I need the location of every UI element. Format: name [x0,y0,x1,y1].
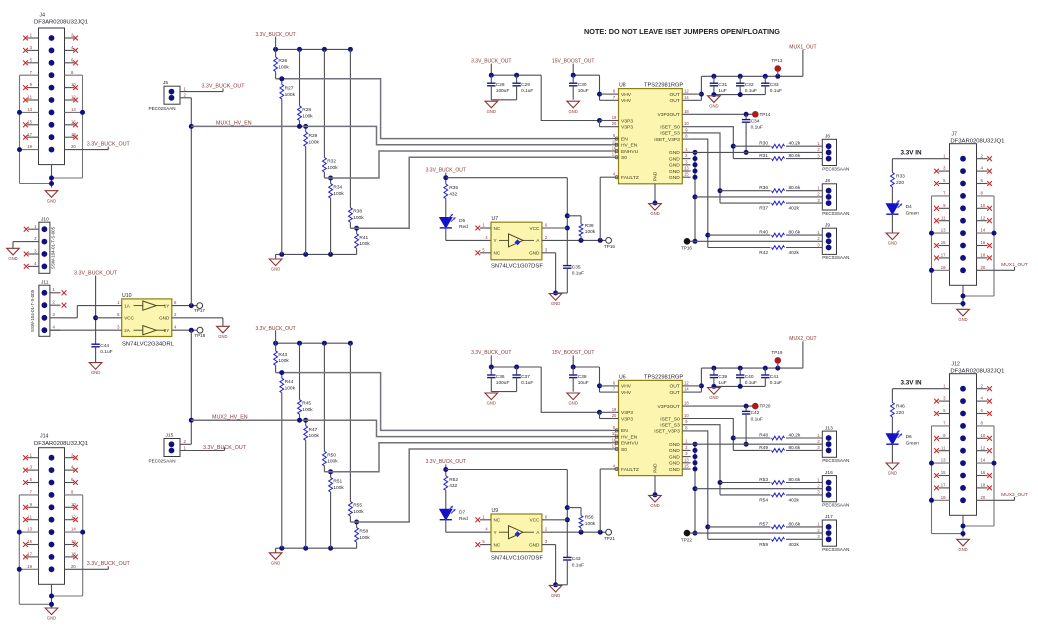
svg-text:SN74LVC2G34DRL: SN74LVC2G34DRL [122,342,175,348]
svg-text:ISET_S3: ISET_S3 [660,131,680,137]
svg-text:MUX1_OUT: MUX1_OUT [1001,262,1028,268]
svg-text:ENHVU: ENHVU [621,441,639,447]
svg-text:1uF: 1uF [718,88,726,94]
svg-text:GND: GND [569,401,578,406]
svg-text:J6: J6 [825,134,830,140]
svg-text:MUX2_HV_EN: MUX2_HV_EN [212,414,248,420]
svg-text:MUX1_OUT: MUX1_OUT [789,44,816,50]
svg-text:GND: GND [551,301,560,306]
svg-text:3.3V_BUCK_OUT: 3.3V_BUCK_OUT [426,459,466,465]
svg-text:V3P3OUT: V3P3OUT [658,112,680,118]
svg-text:Green: Green [906,440,920,446]
svg-text:J15: J15 [166,432,174,438]
svg-text:100k: 100k [359,535,370,541]
svg-text:12: 12 [981,445,986,450]
svg-text:12: 12 [684,380,689,385]
svg-text:11: 11 [28,514,33,519]
svg-text:R29: R29 [309,133,318,139]
svg-text:R35: R35 [449,185,458,191]
svg-text:VCC: VCC [529,226,540,231]
svg-text:16: 16 [981,470,986,475]
svg-text:GND: GND [669,156,680,162]
svg-text:13: 13 [684,457,689,462]
svg-text:3.3V_BUCK_OUT: 3.3V_BUCK_OUT [471,350,511,356]
svg-text:GND: GND [669,467,680,473]
svg-text:15: 15 [941,470,946,475]
svg-text:R44: R44 [285,379,294,385]
svg-text:SN74LVC1G07DSF: SN74LVC1G07DSF [491,555,543,561]
svg-text:J10: J10 [41,217,49,223]
svg-text:R54: R54 [759,498,768,504]
svg-text:GND: GND [159,316,170,321]
svg-text:402k: 402k [789,206,800,212]
svg-text:17: 17 [941,483,946,488]
svg-text:100uF: 100uF [496,380,510,386]
svg-text:Red: Red [459,516,468,522]
svg-text:402k: 402k [789,250,800,256]
svg-text:V3P3OUT: V3P3OUT [658,404,680,410]
svg-text:HV_EN: HV_EN [621,143,638,149]
svg-text:J5: J5 [163,80,168,86]
svg-text:14: 14 [71,107,76,112]
svg-text:80.6k: 80.6k [789,185,801,191]
svg-text:10uF: 10uF [578,380,589,386]
svg-text:VHV: VHV [621,390,632,396]
svg-text:100k: 100k [333,485,344,491]
svg-text:0.1uF: 0.1uF [770,88,782,94]
svg-text:100k: 100k [327,165,338,171]
svg-text:PEC03SAAN: PEC03SAAN [822,255,849,260]
svg-text:3.3V_BUCK_OUT: 3.3V_BUCK_OUT [426,167,466,173]
svg-text:GND: GND [958,547,967,552]
svg-text:40.2k: 40.2k [789,141,801,147]
svg-text:GND: GND [529,251,540,256]
svg-text:GND: GND [669,150,680,156]
svg-text:19: 19 [941,495,946,500]
svg-text:220: 220 [896,180,904,186]
svg-text:GND: GND [487,401,496,406]
svg-text:100k: 100k [353,509,364,515]
svg-text:TPS22981RGP: TPS22981RGP [644,374,683,380]
svg-text:J11: J11 [41,280,49,286]
svg-text:C39: C39 [718,374,727,380]
svg-text:18: 18 [981,483,986,488]
svg-text:R36: R36 [759,185,768,191]
svg-text:40.2k: 40.2k [789,432,801,438]
svg-text:20: 20 [71,144,76,149]
svg-text:J14: J14 [40,434,48,440]
svg-text:R51: R51 [333,478,342,484]
svg-text:10: 10 [684,413,689,418]
svg-text:PEC02SAAN: PEC02SAAN [149,106,176,111]
svg-text:14: 14 [981,458,986,463]
svg-text:15: 15 [27,539,32,544]
svg-text:D5: D5 [459,218,465,224]
svg-text:100k: 100k [309,139,320,145]
svg-text:18: 18 [684,109,689,114]
svg-text:R27: R27 [285,85,294,91]
svg-text:PEC03SAAN: PEC03SAAN [822,458,849,463]
svg-text:U10: U10 [122,293,132,299]
svg-text:R38: R38 [353,209,362,215]
svg-text:R43: R43 [278,352,287,358]
svg-text:12: 12 [684,89,689,94]
svg-text:OUT: OUT [669,384,679,390]
svg-text:3.3V IN: 3.3V IN [901,150,922,157]
svg-text:MUX1_HV_EN: MUX1_HV_EN [216,121,252,127]
svg-text:15V_BOOST_OUT: 15V_BOOST_OUT [552,58,595,64]
svg-text:GND: GND [709,103,718,108]
svg-text:80.6k: 80.6k [789,521,801,527]
svg-text:J16: J16 [825,470,833,476]
svg-text:C43: C43 [572,556,581,562]
svg-text:16: 16 [981,240,986,245]
svg-text:12: 12 [981,215,986,220]
svg-text:R26: R26 [278,58,287,64]
svg-text:C42: C42 [751,410,760,416]
svg-text:V3P3: V3P3 [621,416,633,422]
svg-text:R59: R59 [759,542,768,548]
svg-text:100k: 100k [302,407,313,413]
svg-text:OUT: OUT [669,390,679,396]
svg-text:PEC03SAAN: PEC03SAAN [822,547,849,552]
svg-text:R46: R46 [896,403,905,409]
svg-text:0.1uF: 0.1uF [745,88,757,94]
svg-text:R50: R50 [327,452,336,458]
svg-text:GND: GND [888,241,897,246]
svg-text:15: 15 [684,464,689,469]
svg-text:3.3V_BUCK_OUT: 3.3V_BUCK_OUT [203,445,247,451]
svg-text:U6: U6 [619,374,626,380]
svg-text:R40: R40 [759,230,768,236]
svg-text:13: 13 [27,107,32,112]
svg-text:GND: GND [529,542,540,547]
svg-text:ISET_V3P3: ISET_V3P3 [654,137,680,143]
svg-text:V3P3: V3P3 [621,118,633,124]
svg-text:GND: GND [8,256,17,261]
svg-text:C38: C38 [578,374,587,380]
svg-text:TP14: TP14 [760,112,771,117]
svg-text:R57: R57 [759,521,768,527]
svg-text:TP17: TP17 [194,308,205,313]
svg-text:S0: S0 [621,447,627,453]
svg-text:V3P3: V3P3 [621,410,633,416]
svg-text:EN: EN [621,428,628,434]
svg-text:R47: R47 [309,427,318,433]
svg-text:80.6k: 80.6k [789,445,801,451]
svg-text:TP16: TP16 [681,246,692,251]
svg-text:0.1uF: 0.1uF [572,271,584,277]
svg-text:TP19: TP19 [771,350,782,355]
svg-text:20: 20 [71,564,76,569]
svg-text:14: 14 [684,387,689,392]
svg-text:ISET_S0: ISET_S0 [660,125,680,131]
svg-text:100k: 100k [585,229,596,235]
svg-text:R56: R56 [585,515,594,521]
svg-text:100k: 100k [327,459,338,465]
svg-text:0.1uF: 0.1uF [572,562,584,568]
svg-text:3.3V_BUCK_OUT: 3.3V_BUCK_OUT [471,58,511,64]
svg-text:DF3AR0208U32JQ1: DF3AR0208U32JQ1 [34,441,88,447]
svg-text:C44: C44 [100,343,109,349]
svg-text:U7: U7 [492,216,499,222]
svg-text:0.1uF: 0.1uF [521,380,533,386]
svg-text:R37: R37 [759,206,768,212]
svg-text:11: 11 [941,215,946,220]
svg-text:ENHVU: ENHVU [621,149,639,155]
svg-text:C28: C28 [496,82,505,88]
svg-text:R34: R34 [333,185,342,191]
svg-text:D6: D6 [906,434,912,440]
svg-text:0.1uF: 0.1uF [521,88,533,94]
svg-text:OUT: OUT [669,92,679,98]
svg-text:80.6k: 80.6k [789,153,801,159]
svg-text:1uF: 1uF [718,380,726,386]
svg-text:Green: Green [906,210,920,216]
svg-text:19: 19 [612,407,617,412]
svg-text:11: 11 [941,445,946,450]
svg-text:14: 14 [71,527,76,532]
svg-text:C29: C29 [521,82,530,88]
svg-text:J7: J7 [952,132,958,138]
svg-text:GND: GND [958,317,967,322]
svg-text:C31: C31 [718,82,727,88]
svg-text:GND: GND [669,175,680,181]
svg-text:10: 10 [981,203,986,208]
svg-text:GND: GND [569,109,578,114]
svg-text:SSW-104-01-T-S-005: SSW-104-01-T-S-005 [51,226,56,269]
svg-text:20: 20 [612,413,617,418]
svg-text:20: 20 [612,121,617,126]
svg-text:TP22: TP22 [681,537,692,542]
svg-text:3.3V IN: 3.3V IN [901,380,922,387]
svg-text:13: 13 [684,166,689,171]
svg-text:GND: GND [551,593,560,598]
svg-text:R33: R33 [896,173,905,179]
svg-text:ISET_V3P3: ISET_V3P3 [654,429,680,435]
svg-text:2A: 2A [124,328,131,333]
svg-text:3.3V_BUCK_OUT: 3.3V_BUCK_OUT [74,270,118,276]
svg-text:19: 19 [27,144,32,149]
svg-text:100k: 100k [285,386,296,392]
svg-text:100k: 100k [333,191,344,197]
svg-text:U8: U8 [619,83,626,89]
svg-text:0.1uF: 0.1uF [751,416,763,422]
svg-text:TPS22981RGP: TPS22981RGP [644,83,683,89]
svg-text:DF3AR0208U32JQ1: DF3AR0208U32JQ1 [950,139,1004,145]
svg-text:R39: R39 [585,223,594,229]
svg-text:GND: GND [47,616,56,621]
svg-text:GND: GND [669,454,680,460]
svg-text:11: 11 [28,95,33,100]
svg-text:TP15: TP15 [604,244,615,249]
svg-text:SN74LVC1G07DSF: SN74LVC1G07DSF [491,264,543,270]
svg-text:0.1uF: 0.1uF [751,125,763,131]
svg-text:DF3AR0208U32JQ1: DF3AR0208U32JQ1 [34,20,88,26]
svg-text:10uF: 10uF [578,88,589,94]
svg-text:GND: GND [650,503,659,508]
svg-text:GND: GND [218,334,227,339]
svg-text:GND: GND [669,442,680,448]
svg-text:TP13: TP13 [771,58,782,63]
svg-text:D7: D7 [459,510,465,516]
svg-text:17: 17 [27,552,32,557]
svg-text:10: 10 [981,433,986,438]
svg-text:PEC03SAAN: PEC03SAAN [822,211,849,216]
svg-text:J8: J8 [825,178,830,184]
svg-text:NC: NC [494,518,501,523]
svg-text:220: 220 [896,410,904,416]
svg-text:20: 20 [981,265,986,270]
svg-text:R55: R55 [353,503,362,509]
svg-text:PAD: PAD [653,463,658,473]
svg-text:J12: J12 [952,362,960,368]
svg-text:0.1uF: 0.1uF [770,380,782,386]
svg-text:100k: 100k [585,521,596,527]
svg-text:R52: R52 [449,477,458,483]
svg-text:100k: 100k [278,358,289,364]
svg-text:ISET_S0: ISET_S0 [660,416,680,422]
svg-text:100k: 100k [285,92,296,98]
svg-text:MUX2_OUT: MUX2_OUT [1001,492,1028,498]
svg-text:R41: R41 [359,235,368,241]
svg-text:15: 15 [684,172,689,177]
svg-text:VHV: VHV [621,98,632,104]
svg-text:GND: GND [47,198,56,203]
svg-text:J4: J4 [40,13,46,19]
svg-text:0.1uF: 0.1uF [745,380,757,386]
svg-text:19: 19 [612,115,617,120]
svg-text:J9: J9 [825,222,830,228]
svg-text:DF3AR0208U32JQ1: DF3AR0208U32JQ1 [950,369,1004,375]
svg-text:20: 20 [981,495,986,500]
svg-text:80.6k: 80.6k [789,230,801,236]
svg-text:C36: C36 [496,374,505,380]
svg-text:U9: U9 [492,508,499,514]
svg-text:C41: C41 [770,374,779,380]
svg-text:S0: S0 [621,155,627,161]
svg-text:3.3V_BUCK_OUT: 3.3V_BUCK_OUT [87,561,131,567]
svg-text:PAD: PAD [653,171,658,181]
svg-text:17: 17 [27,132,32,137]
svg-text:SSW-104-01-T-S-005: SSW-104-01-T-S-005 [30,289,35,332]
svg-text:TP18: TP18 [194,333,205,338]
svg-text:C33: C33 [770,82,779,88]
svg-text:ISET_S3: ISET_S3 [660,423,680,429]
svg-text:R45: R45 [302,401,311,407]
svg-text:GND: GND [669,448,680,454]
svg-text:TP21: TP21 [604,536,615,541]
svg-text:C32: C32 [745,82,754,88]
svg-text:14: 14 [981,228,986,233]
svg-text:15: 15 [27,119,32,124]
svg-text:18: 18 [981,253,986,258]
svg-text:GND: GND [669,461,680,467]
svg-text:FAULTZ: FAULTZ [621,467,639,473]
svg-text:C30: C30 [578,82,587,88]
svg-text:NC: NC [494,251,501,256]
svg-text:EN: EN [621,136,628,142]
svg-text:10: 10 [684,121,689,126]
svg-text:100k: 100k [309,433,320,439]
svg-text:14: 14 [684,95,689,100]
svg-text:GND: GND [487,109,496,114]
svg-text:J13: J13 [825,425,833,431]
svg-text:Red: Red [459,224,468,230]
svg-text:402k: 402k [789,542,800,548]
svg-text:FAULTZ: FAULTZ [621,175,639,181]
svg-text:NC: NC [494,226,501,231]
svg-text:V3P3: V3P3 [621,125,633,131]
svg-text:MUX2_OUT: MUX2_OUT [789,336,816,342]
svg-text:17: 17 [941,253,946,258]
svg-text:HV_EN: HV_EN [621,434,638,440]
svg-text:100k: 100k [278,64,289,70]
svg-text:432: 432 [449,483,457,489]
svg-text:R49: R49 [759,445,768,451]
svg-text:J17: J17 [825,514,833,520]
svg-text:GND: GND [709,395,718,400]
svg-text:GND: GND [271,267,280,272]
svg-text:R30: R30 [759,141,768,147]
svg-text:GND: GND [669,169,680,175]
svg-text:80.6k: 80.6k [789,477,801,483]
svg-text:1A: 1A [124,303,131,308]
svg-text:432: 432 [449,191,457,197]
svg-text:TP20: TP20 [760,404,771,409]
svg-text:OUT: OUT [669,98,679,104]
svg-text:19: 19 [941,265,946,270]
svg-text:R28: R28 [302,107,311,113]
svg-text:NOTE: DO NOT LEAVE ISET JUMPER: NOTE: DO NOT LEAVE ISET JUMPERS OPEN/FLO… [584,27,780,36]
svg-text:VHV: VHV [621,384,632,390]
svg-text:100k: 100k [359,241,370,247]
svg-text:C40: C40 [745,374,754,380]
svg-text:13: 13 [941,458,946,463]
svg-text:VCC: VCC [124,316,134,321]
svg-text:0.1uF: 0.1uF [100,349,112,355]
svg-text:13: 13 [27,527,32,532]
svg-text:13: 13 [941,228,946,233]
svg-text:R58: R58 [359,529,368,535]
svg-text:R53: R53 [759,477,768,483]
svg-text:100k: 100k [353,215,364,221]
svg-text:GND: GND [271,560,280,565]
svg-text:GND: GND [888,471,897,476]
svg-text:18: 18 [684,401,689,406]
svg-text:GND: GND [669,163,680,169]
svg-text:15: 15 [941,240,946,245]
svg-text:C35: C35 [572,264,581,270]
svg-text:R42: R42 [759,250,768,256]
svg-text:GND: GND [650,211,659,216]
svg-text:NC: NC [494,542,501,547]
svg-text:3.3V_BUCK_OUT: 3.3V_BUCK_OUT [201,83,245,89]
svg-text:PEC03SAAN: PEC03SAAN [822,503,849,508]
svg-text:VHV: VHV [621,92,632,98]
svg-text:PEC02SAAN: PEC02SAAN [149,459,176,464]
svg-text:D4: D4 [906,204,912,210]
svg-text:100k: 100k [302,113,313,119]
svg-text:15V_BOOST_OUT: 15V_BOOST_OUT [552,350,595,356]
svg-text:19: 19 [27,564,32,569]
svg-text:R32: R32 [327,159,336,165]
svg-text:C34: C34 [751,118,760,124]
svg-text:R31: R31 [759,153,768,159]
svg-text:3.3V_BUCK_OUT: 3.3V_BUCK_OUT [87,141,131,147]
svg-text:PEC03SAAN: PEC03SAAN [822,166,849,171]
svg-text:VCC: VCC [529,518,540,523]
